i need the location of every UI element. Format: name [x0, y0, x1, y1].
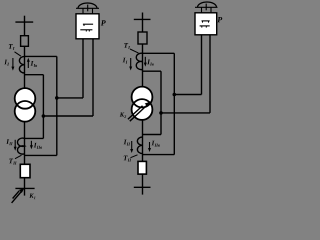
label P (left relay) — [101, 20, 106, 25]
leader T_I (right) — [130, 49, 139, 53]
label I_Iv — [31, 61, 38, 67]
label I_I — [4, 60, 9, 66]
label T_II — [9, 159, 16, 165]
label T_I — [9, 44, 15, 50]
wire: load to bottom — [24, 178, 26, 196]
wire: CT-I secondary top lead — [25, 55, 57, 57]
wire: CT-I secondary bottom lead — [25, 74, 44, 76]
wire: relay right leg (right) — [209, 35, 211, 113]
wire: CT-I bottom lead (right) — [143, 70, 162, 72]
wire: line B' down — [173, 53, 175, 154]
wire: tap to relay right leg (right) — [161, 112, 210, 114]
label T_II (right) — [124, 156, 131, 162]
node: dot B — [55, 96, 59, 100]
relay armature bar (right) — [195, 6, 218, 8]
label P (right relay) — [217, 17, 222, 22]
label I_Iv (right) — [147, 60, 154, 66]
relay dome (right) — [198, 2, 217, 7]
relay inner line 1 (right) — [202, 20, 210, 22]
wire: load to bottom (right) — [142, 174, 144, 195]
node: dot A' — [159, 111, 163, 115]
CT T_I winding — [19, 56, 24, 73]
relay P (right) — [195, 2, 222, 35]
label I_IIv — [34, 143, 42, 149]
wire: relay left leg (right) — [201, 35, 203, 95]
load rectangle — [20, 164, 30, 177]
label T_I (right) — [124, 43, 130, 49]
wire: line A' down — [160, 71, 162, 134]
wire: transformer to load (right) — [142, 120, 144, 162]
leader T_I — [15, 52, 22, 56]
label K1 — [29, 194, 35, 199]
label I_I (right) — [123, 58, 128, 64]
power transformer T (two circles) — [15, 88, 36, 109]
label I_IIv (right) — [152, 141, 160, 147]
relay armature bar — [76, 7, 99, 9]
wire: bottom bus cross (right) — [134, 186, 151, 188]
wire: line B down — [56, 56, 58, 155]
leader T_II (right) — [131, 155, 138, 158]
wire: feeder top with bus cross — [15, 16, 33, 36]
fault arrow K1 — [12, 191, 23, 203]
node: dot A — [42, 114, 46, 118]
arrow I_I (right, down) — [130, 58, 132, 68]
breaker Q2 (rectangle) — [138, 32, 147, 44]
relay ticks — [82, 8, 84, 14]
wire: CT-II bottom lead to line B — [25, 154, 57, 156]
arrow I_IIv (down) — [30, 141, 32, 147]
wire: feeder top with bus cross — [134, 13, 151, 33]
wire: CT-II top lead (right, from line A') — [143, 134, 162, 136]
leader T_II — [15, 155, 22, 159]
load rectangle (right) — [138, 161, 146, 174]
wire: bottom bus cross — [15, 187, 34, 189]
relay inner line 2 — [80, 29, 92, 31]
arrow I_IIv (right, down) — [149, 142, 151, 149]
relay inner line 1 — [83, 23, 93, 25]
arrow I_I (primary, down) — [12, 58, 14, 68]
wire: relay right leg — [92, 39, 94, 116]
relay box — [76, 14, 99, 39]
wire: tap to relay left leg — [57, 97, 83, 99]
label K2 — [120, 112, 126, 117]
wire: CT-II top lead (from line A) — [25, 137, 44, 139]
wire: breaker to transformer — [142, 44, 144, 87]
label I_II (right) — [124, 140, 131, 146]
breaker Q1 (rectangle) — [21, 36, 29, 47]
wire: line A down — [42, 75, 44, 139]
arrow I_II (right, down) — [131, 141, 133, 150]
wire: transformer to load — [24, 122, 26, 165]
node: dot B' — [173, 93, 177, 97]
arrow I_Iv (secondary, up) — [27, 61, 29, 68]
power transformer (right, two circles) — [132, 87, 153, 108]
CT T_II winding (right) — [137, 137, 142, 154]
wire: relay left leg — [82, 39, 84, 98]
wire: CT-I top lead (right) — [143, 52, 175, 54]
CT T_II winding — [17, 138, 24, 154]
relay ticks (right) — [201, 7, 203, 13]
arrow I_II (down) — [14, 140, 16, 148]
arrow I_Iv (right, down) — [144, 57, 146, 64]
CT T_I winding (right) — [136, 53, 142, 69]
relay inner line 2 (right) — [200, 25, 210, 27]
wire: CT-II bottom lead (right) — [143, 154, 175, 156]
relay dome — [78, 3, 97, 8]
fault arrow K2 (internal) — [128, 105, 147, 121]
wire: tap to relay right leg — [43, 115, 93, 117]
wire: breaker to transformer — [24, 46, 26, 88]
relay box (right) — [195, 13, 217, 35]
wire: tap to relay left leg (right) — [174, 94, 201, 96]
relay P (left) — [76, 3, 106, 39]
label I_II — [6, 139, 12, 145]
